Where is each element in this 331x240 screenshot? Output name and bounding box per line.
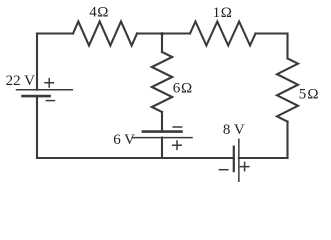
battery V1 minus sign <box>46 100 54 102</box>
wire middle branch to bottom rail <box>161 138 163 158</box>
wire top-middle segment <box>137 32 190 34</box>
battery V2 plus sign <box>173 141 181 149</box>
svg-text:22 V: 22 V <box>6 73 35 89</box>
wire left branch lower <box>36 96 38 158</box>
battery V2 6V negative plate (short thick) <box>143 130 182 133</box>
battery V1 22V negative plate (short thick) <box>23 95 50 98</box>
battery V1 22V positive plate (long thin) <box>17 89 73 91</box>
resistor R1 4Ω zigzag <box>73 22 137 46</box>
wire right branch lower <box>286 122 288 158</box>
wire bottom rail left segment <box>37 157 234 159</box>
wire bottom rail right segment <box>239 157 288 159</box>
battery V2 minus sign <box>173 126 181 128</box>
battery V3 8V positive plate (long thin) <box>238 139 240 181</box>
wire left branch upper <box>36 34 38 90</box>
svg-text:4Ω: 4Ω <box>89 5 109 21</box>
svg-text:1Ω: 1Ω <box>213 5 233 21</box>
battery V2 6V positive plate (long thin) <box>132 137 192 139</box>
svg-text:8 V: 8 V <box>223 122 245 138</box>
resistor R2 1Ω zigzag <box>190 22 256 46</box>
battery V1 plus sign <box>45 79 53 87</box>
wire right branch upper <box>286 34 288 59</box>
battery V3 plus sign <box>240 162 248 170</box>
wire middle branch upper <box>161 34 163 53</box>
svg-text:6 V: 6 V <box>113 132 135 148</box>
wire top-left segment <box>37 32 73 34</box>
battery V3 minus sign <box>219 169 227 171</box>
resistor R4 5Ω zigzag <box>277 58 298 121</box>
svg-text:6Ω: 6Ω <box>173 81 193 97</box>
battery V3 8V negative plate (short thick) <box>233 147 235 172</box>
svg-text:5Ω: 5Ω <box>299 86 320 102</box>
node A junction dot top middle <box>160 32 163 35</box>
wire middle branch lower <box>161 112 163 132</box>
resistor R3 6Ω zigzag <box>152 52 172 112</box>
wire top-right segment <box>256 32 288 34</box>
